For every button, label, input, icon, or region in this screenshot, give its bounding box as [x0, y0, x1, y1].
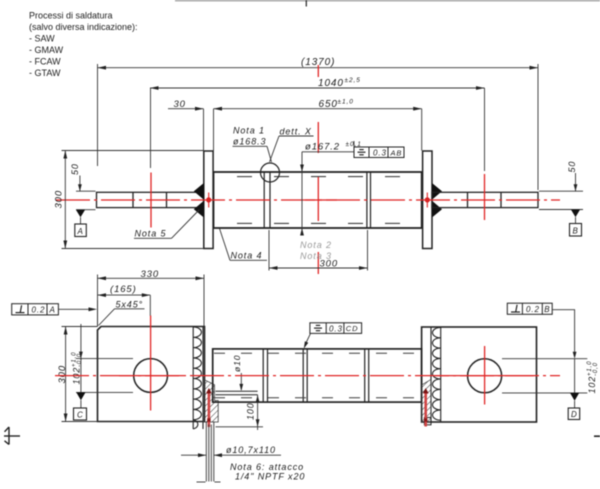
right shaft	[432, 192, 538, 207]
svg-text:Nota 1: Nota 1	[233, 126, 265, 136]
svg-text:±2,5: ±2,5	[345, 77, 361, 84]
svg-text:- GMAW: - GMAW	[29, 45, 64, 55]
svg-text:ø167.2: ø167.2	[305, 142, 340, 153]
svg-text:Nota 6: attacco: Nota 6: attacco	[230, 462, 304, 472]
svg-text:-0,0: -0,0	[593, 362, 599, 376]
feature control frame perpendicularity 0.2 A	[12, 304, 59, 315]
svg-text:ø168.3: ø168.3	[233, 137, 266, 147]
small box at right weld bottom	[424, 418, 431, 425]
leader from frame down to extension line	[552, 310, 574, 352]
svg-text:Nota 5: Nota 5	[135, 229, 167, 239]
red crosshair left shaft	[150, 173, 152, 228]
red crosshair right shaft	[484, 174, 486, 220]
dimension 50 left with extension lines	[76, 176, 96, 210]
svg-text:(salvo diversa indicazione):: (salvo diversa indicazione):	[29, 22, 138, 32]
dimension 300 lower left	[62, 327, 98, 422]
lower drum joint 3	[364, 349, 366, 402]
right flange	[423, 151, 432, 249]
dimension 100	[216, 395, 264, 430]
hidden bore line upper	[215, 176, 421, 178]
detail X balloon circle	[261, 163, 280, 182]
datum B symbol	[571, 210, 580, 218]
svg-text:CD: CD	[346, 324, 359, 333]
svg-text:300: 300	[320, 259, 339, 270]
svg-text:C: C	[77, 411, 84, 420]
svg-text:102: 102	[587, 376, 597, 394]
dimension 300 between drum joints	[269, 230, 368, 271]
red weld line right	[424, 392, 427, 427]
svg-text:- FCAW: - FCAW	[29, 57, 61, 67]
svg-text:1/4" NPTF x20: 1/4" NPTF x20	[235, 472, 305, 482]
lower drum hidden dashes lower	[214, 397, 421, 399]
dimension ø167.2 with vertical line through drum	[302, 152, 354, 234]
red weld line left	[208, 392, 211, 427]
right block bore hole	[468, 359, 502, 393]
red center mark on left flange	[208, 193, 210, 208]
svg-text:A: A	[77, 227, 84, 236]
svg-text:D: D	[571, 410, 578, 419]
svg-text:ø10,7x110: ø10,7x110	[226, 445, 276, 455]
svg-text:0.2: 0.2	[32, 306, 46, 315]
svg-text:- SAW: - SAW	[29, 34, 55, 44]
sheet right centering tick	[594, 435, 600, 437]
svg-text:B: B	[573, 226, 579, 235]
dimension o10 rotated	[232, 355, 242, 372]
lower drum hidden dashes upper	[214, 352, 421, 354]
drum weld joint 2	[366, 172, 368, 228]
dimension (1370)	[98, 64, 539, 190]
svg-text:±1,0: ±1,0	[338, 99, 354, 106]
sheet top border line	[175, 0, 600, 2]
lower drum joint 2	[302, 349, 304, 402]
svg-text:100: 100	[246, 402, 256, 420]
red crosshair drum center	[305, 65, 337, 274]
drum body	[214, 172, 422, 228]
sheet left centering mark	[4, 427, 20, 445]
svg-text:ø10: ø10	[232, 355, 242, 372]
left weld seam scallops	[193, 327, 203, 430]
red center mark on right flange	[426, 193, 428, 208]
datum C symbol	[76, 392, 85, 400]
svg-text:AB: AB	[390, 148, 403, 157]
weld process note text block	[29, 11, 138, 79]
svg-text:(165): (165)	[110, 284, 137, 295]
svg-text:330: 330	[141, 269, 160, 280]
drilled hole verticals below block	[197, 422, 221, 483]
weld symbol triangles at right flange	[432, 183, 442, 200]
dimension 330	[98, 275, 205, 327]
lower drum joint 1	[262, 349, 264, 402]
datum D symbol	[570, 393, 579, 401]
dimension 50 right with extension lines	[539, 173, 583, 210]
left shaft	[97, 192, 204, 207]
feature control frame perpendicularity 0.2 B	[507, 303, 552, 314]
svg-text:Processi di saldatura: Processi di saldatura	[29, 11, 113, 21]
leader from frame to drum	[305, 333, 311, 345]
hidden bore line lower	[215, 222, 421, 224]
svg-text:Nota 2: Nota 2	[300, 240, 332, 250]
svg-text:300: 300	[57, 365, 68, 384]
feature control frame 0.3 AB	[354, 147, 404, 158]
svg-text:650: 650	[319, 99, 338, 110]
sheet top centering tick	[305, 0, 307, 7]
datum A symbol	[76, 210, 85, 218]
lubrication pipe lines	[216, 390, 258, 392]
svg-text:B: B	[544, 305, 550, 314]
dimension 650	[214, 109, 422, 151]
left weld wedge hatch	[203, 379, 218, 422]
svg-text:300: 300	[54, 190, 65, 209]
svg-text:5x45°: 5x45°	[116, 300, 144, 310]
svg-text:A: A	[49, 306, 56, 315]
red horizontal centerline top view	[56, 199, 560, 201]
svg-text:1040: 1040	[318, 78, 344, 89]
svg-text:-0,0: -0,0	[77, 353, 83, 367]
dimension 300 left vertical (flange)	[62, 151, 204, 249]
left block	[98, 327, 205, 422]
svg-text:dett. X: dett. X	[280, 127, 312, 137]
svg-text:50: 50	[567, 161, 577, 173]
dimension 102 right with datum D	[502, 359, 587, 393]
svg-text:0.2: 0.2	[526, 305, 540, 314]
svg-text:Nota 4: Nota 4	[231, 251, 263, 261]
dimension 1040	[150, 88, 485, 171]
dimension 102 left with datum C	[76, 324, 133, 392]
feature control frame 0.3 CD	[310, 323, 362, 334]
left flange	[204, 151, 213, 249]
dimension (165)	[98, 295, 151, 316]
svg-text:0.3: 0.3	[329, 324, 343, 333]
leader from frame to block left face	[58, 308, 90, 310]
svg-text:- GTAW: - GTAW	[29, 68, 61, 78]
dimension 30	[168, 109, 204, 151]
drum weld joint 1	[263, 172, 265, 228]
red hole crosshair right	[484, 346, 486, 405]
right block	[422, 327, 537, 422]
red horizontal centerline lower view	[55, 375, 560, 377]
svg-text:30: 30	[174, 99, 186, 110]
red hole crosshair left	[150, 316, 152, 411]
right weld seam scallops	[431, 327, 441, 422]
right weld hatch patch	[422, 380, 431, 423]
dimension o10,7x110	[181, 454, 281, 456]
left block bore hole	[134, 359, 168, 393]
lower drum body	[213, 349, 422, 402]
svg-text:50: 50	[70, 163, 80, 175]
svg-text:0.3: 0.3	[373, 149, 387, 158]
weld symbol triangles at left flange	[194, 183, 204, 200]
